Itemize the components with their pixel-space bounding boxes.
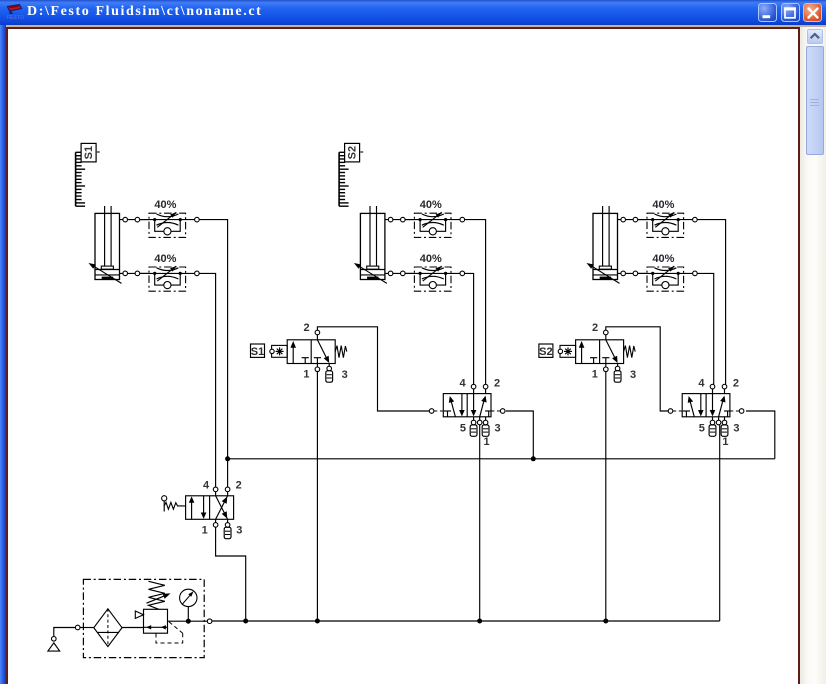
one-way flow control valve 40% [638,266,693,291]
port labels [698,377,739,448]
wire 2V right pilot to signal bus [506,411,534,459]
svg-text:S2: S2 [539,346,552,358]
one-way flow control valve 40% [140,212,195,237]
valve S1 port 1 node [315,364,320,372]
cylinder 1A body [95,213,120,279]
svg-text:3: 3 [342,369,348,381]
valve 2V top port nodes [471,384,488,393]
svg-text:1: 1 [483,436,489,448]
valve 3V exhaust mufflers [709,425,728,436]
flow valve outlet node [195,271,200,276]
port labels [459,377,500,448]
cylinder 2A piston rod [370,206,377,266]
junction signal bus / V1 port 2 [225,456,230,461]
valve 3V pilot ports [668,409,744,414]
one-way flow control valve 40% [405,212,460,237]
wire cyl3 bottom to valve 3V port4 [697,273,714,384]
valve 3V bottom port nodes [710,417,727,425]
valve 2V exhaust mufflers [470,425,489,436]
connection nodes [621,217,638,275]
svg-text:1: 1 [202,524,208,536]
flow valve outlet node [693,271,698,276]
cylinder port lines [385,220,415,274]
valve S2 return spring [624,346,636,358]
signal bus wire [228,458,775,460]
label box S2 [539,344,553,358]
svg-text:4: 4 [698,377,705,389]
cylinder 2A position arrow [354,263,387,283]
svg-text:40%: 40% [652,199,674,211]
svg-text:2: 2 [304,322,310,334]
cylinder port lines [618,220,648,274]
wire V1 port1 to supply bus [216,527,246,621]
wire 2V port1 to supply bus [479,425,481,621]
cylinder 1A piston rod [105,206,112,266]
junction supply/S2 [603,619,608,624]
svg-text:3: 3 [733,422,739,434]
valve S1 port 3 exhaust muffler [326,364,333,383]
valve S2 star actuator [558,345,575,357]
wire cyl2 top to valve 2V port2 [465,220,486,385]
port labels [202,480,243,537]
valve 2V bottom port nodes [471,417,488,425]
flow valve outlet node [693,217,698,222]
flow valve outlet node [460,271,465,276]
regulator feedback pilot line [156,622,183,643]
valve S1 port 2 node [315,330,320,340]
pressure regulator [135,609,167,633]
valve 3V top port nodes [710,384,727,393]
service unit output node [207,619,212,624]
cylinder 3A body [593,213,618,279]
wire 3V right pilot to signal bus [746,411,775,459]
flow valve outlet node [195,217,200,222]
supply bus wire [212,620,720,622]
wire S2 port2 to 3V left pilot [606,327,669,411]
valve V1 manual detent actuator [162,496,186,512]
filter with water separator [80,609,144,647]
svg-text:5: 5 [699,422,705,434]
cylinder 3A position arrow [587,263,620,283]
wire S2 port1 to supply bus [605,372,607,621]
valve S2 port 3 exhaust muffler [614,364,621,383]
svg-text:40%: 40% [420,253,442,265]
distance ruler S2 [339,143,363,206]
svg-text:2: 2 [494,377,500,389]
port labels [592,322,636,381]
junction signal bus / 2V pilot [531,456,536,461]
svg-text:2: 2 [592,322,598,334]
cylinder 1A position arrow [89,263,122,283]
5/2-way valve 3V body [682,394,731,417]
svg-text:S1: S1 [83,146,95,159]
svg-text:4: 4 [203,480,210,492]
svg-text:5: 5 [460,422,466,434]
svg-text:1: 1 [592,369,598,381]
junction supply/2V [477,619,482,624]
3/2-way valve S1 body [287,340,335,364]
junction supply/S1 [315,619,320,624]
one-way flow control valve 40% [638,212,693,237]
one-way flow control valve 40% [405,266,460,291]
cylinder 2A body [360,213,385,279]
cylinder port lines [120,220,150,274]
svg-text:40%: 40% [420,199,442,211]
label box S1 [251,344,265,358]
port labels [303,322,347,381]
svg-text:4: 4 [459,377,466,389]
svg-text:1: 1 [722,436,728,448]
svg-text:3: 3 [494,422,500,434]
wire cyl3 top to valve 3V port2 [697,220,725,385]
valve S2 port 1 node [604,364,609,372]
4/2-way valve V1 body [186,496,234,520]
valve S1 star actuator [270,345,287,357]
valve S1 return spring [335,346,347,358]
connection nodes [388,217,405,275]
wire cyl1 bottom to valve V1 port4 [199,273,215,487]
cylinder 3A piston rod [603,206,610,266]
valve 2V pilot ports [429,409,505,414]
one-way flow control valve 40% [140,266,195,291]
3/2-way valve S2 body [576,340,624,364]
wire S1 port2 to 2V left pilot [317,327,429,411]
wire cyl1 top to valve V1 port2 [199,220,227,488]
valve V1 exhaust muffler [224,527,231,538]
junction supply/V1 [243,619,248,624]
wire 3V port1 to supply bus [719,425,721,621]
svg-text:3: 3 [236,524,242,536]
flow valve outlet node [460,217,465,222]
connection nodes [123,217,140,275]
pressure gauge [168,589,208,624]
valve V1 bottom port nodes [213,519,230,527]
svg-text:2: 2 [733,377,739,389]
air service unit (filter + regulator + gauge) [83,579,204,657]
svg-text:1: 1 [303,369,309,381]
svg-text:3: 3 [630,369,636,381]
svg-text:2: 2 [236,480,242,492]
regulator spring [147,581,171,609]
svg-text:S1: S1 [251,346,264,358]
svg-text:40%: 40% [652,253,674,265]
svg-text:40%: 40% [154,253,176,265]
valve S2 port 2 node [604,330,609,340]
svg-text:S2: S2 [347,146,359,159]
wire cyl2 bottom to valve 2V port4 [465,273,474,384]
compressed air source [48,625,80,651]
wire S1 port1 to supply bus [316,372,318,621]
5/2-way valve 2V body [443,394,492,417]
valve V1 top port nodes [213,487,230,496]
distance ruler S1 [76,143,100,206]
svg-text:40%: 40% [154,199,176,211]
